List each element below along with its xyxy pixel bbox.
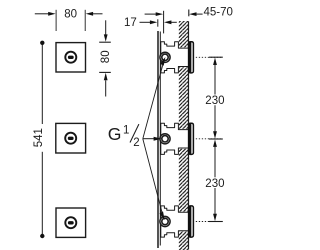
dimension 80 top: left arrow	[35, 12, 56, 16]
handle circle 2	[65, 133, 76, 144]
square trim plate 2	[56, 123, 86, 153]
handle circle 1	[65, 52, 76, 63]
svg-text:541: 541	[33, 128, 45, 147]
dimension 80 vertical: tick bottom	[99, 71, 111, 73]
svg-text:80: 80	[100, 50, 112, 63]
dimension 45-70: left arrow	[145, 12, 164, 16]
wall hatching segment bottom	[179, 232, 189, 250]
svg-text:230: 230	[205, 178, 224, 190]
dimension 230 upper: tick bottom shared	[209, 138, 223, 140]
leader to middle valve	[143, 137, 162, 141]
wall hatching segment 3	[179, 149, 189, 212]
svg-text:2: 2	[133, 137, 139, 149]
wall face line	[188, 21, 190, 249]
valve 2 cartridge silhouette	[161, 123, 189, 154]
dimension 230 lower: line + arrows	[213, 139, 217, 221]
dimension 230 upper: tick top	[209, 56, 223, 58]
dimension 80 vertical: bottom arrow	[104, 73, 108, 97]
dimension 17: tick at plate face	[157, 19, 159, 26]
valve body side view 3	[160, 206, 223, 237]
svg-text:230: 230	[205, 95, 224, 107]
svg-text:G: G	[108, 124, 122, 144]
dimension 17: right arrow	[164, 20, 177, 24]
valve 1 cartridge silhouette	[161, 42, 189, 73]
valve body side view 1	[160, 42, 223, 73]
valve 3 trim flange	[189, 206, 194, 237]
dimension 80 vertical: top arrow	[104, 20, 108, 42]
dimension 230 lower: tick bottom	[209, 221, 223, 223]
valve 1 flange face bar	[188, 42, 191, 73]
valve 1 trim flange	[189, 42, 194, 73]
handle slot 2	[68, 137, 74, 140]
handle slot 1	[68, 56, 74, 59]
square trim plate 1	[56, 43, 86, 72]
svg-text:17: 17	[124, 17, 137, 29]
dimension 45-70: right arrow	[189, 12, 203, 16]
dimension 541: line lower segment	[41, 152, 43, 236]
svg-text:1: 1	[123, 124, 129, 136]
valve 2 dotted centerline	[196, 138, 223, 140]
valve 1 dotted centerline	[196, 56, 223, 58]
svg-text:45-70: 45-70	[204, 7, 233, 19]
valve 1 inlet union inner circle	[162, 54, 168, 60]
dimension 80 top: extension line right	[84, 10, 86, 31]
valve 2 flange face bar	[188, 124, 191, 155]
dimension 230 upper: line + arrows	[213, 58, 217, 139]
valve 3 inlet union inner circle	[162, 218, 168, 224]
dimension 541: dot bottom	[40, 234, 44, 238]
valve 1 inlet union outer circle	[160, 52, 170, 62]
valve 3 flange face bar	[188, 206, 191, 237]
wall hatching segment top	[179, 21, 189, 47]
dimension 80 vertical: tick top	[99, 41, 111, 43]
handle circle 3	[65, 217, 76, 228]
dimension 541: line upper segment	[41, 43, 43, 124]
wall hatching segment 2	[179, 67, 189, 129]
leader to bottom valve	[143, 139, 165, 220]
handle slot 3	[68, 221, 74, 224]
svg-text:80: 80	[64, 9, 77, 21]
valve body side view 2	[160, 123, 223, 154]
dimension 80 top: right arrow	[86, 12, 103, 16]
mounting plate line right	[159, 32, 161, 246]
square trim plate 3	[56, 208, 86, 237]
valve 2 inlet union outer circle	[160, 134, 170, 144]
dimension 45-70: tick at wall face	[188, 10, 190, 17]
dimension 17/45-70: shared extension line	[163, 11, 165, 34]
valve 3 dotted centerline	[196, 221, 223, 223]
label G 1/2	[108, 124, 140, 149]
dimension 541: dot top	[40, 41, 44, 45]
mounting plate line left	[157, 31, 159, 248]
valve 3 inlet union outer circle	[160, 216, 170, 226]
valve 3 cartridge silhouette	[161, 206, 189, 237]
valve 2 trim flange	[189, 123, 194, 154]
leader to top valve	[143, 57, 166, 139]
dimension 80 top: extension line left	[55, 10, 57, 31]
valve 2 inlet union inner circle	[162, 136, 168, 142]
dimension 17: left arrow	[140, 20, 158, 24]
